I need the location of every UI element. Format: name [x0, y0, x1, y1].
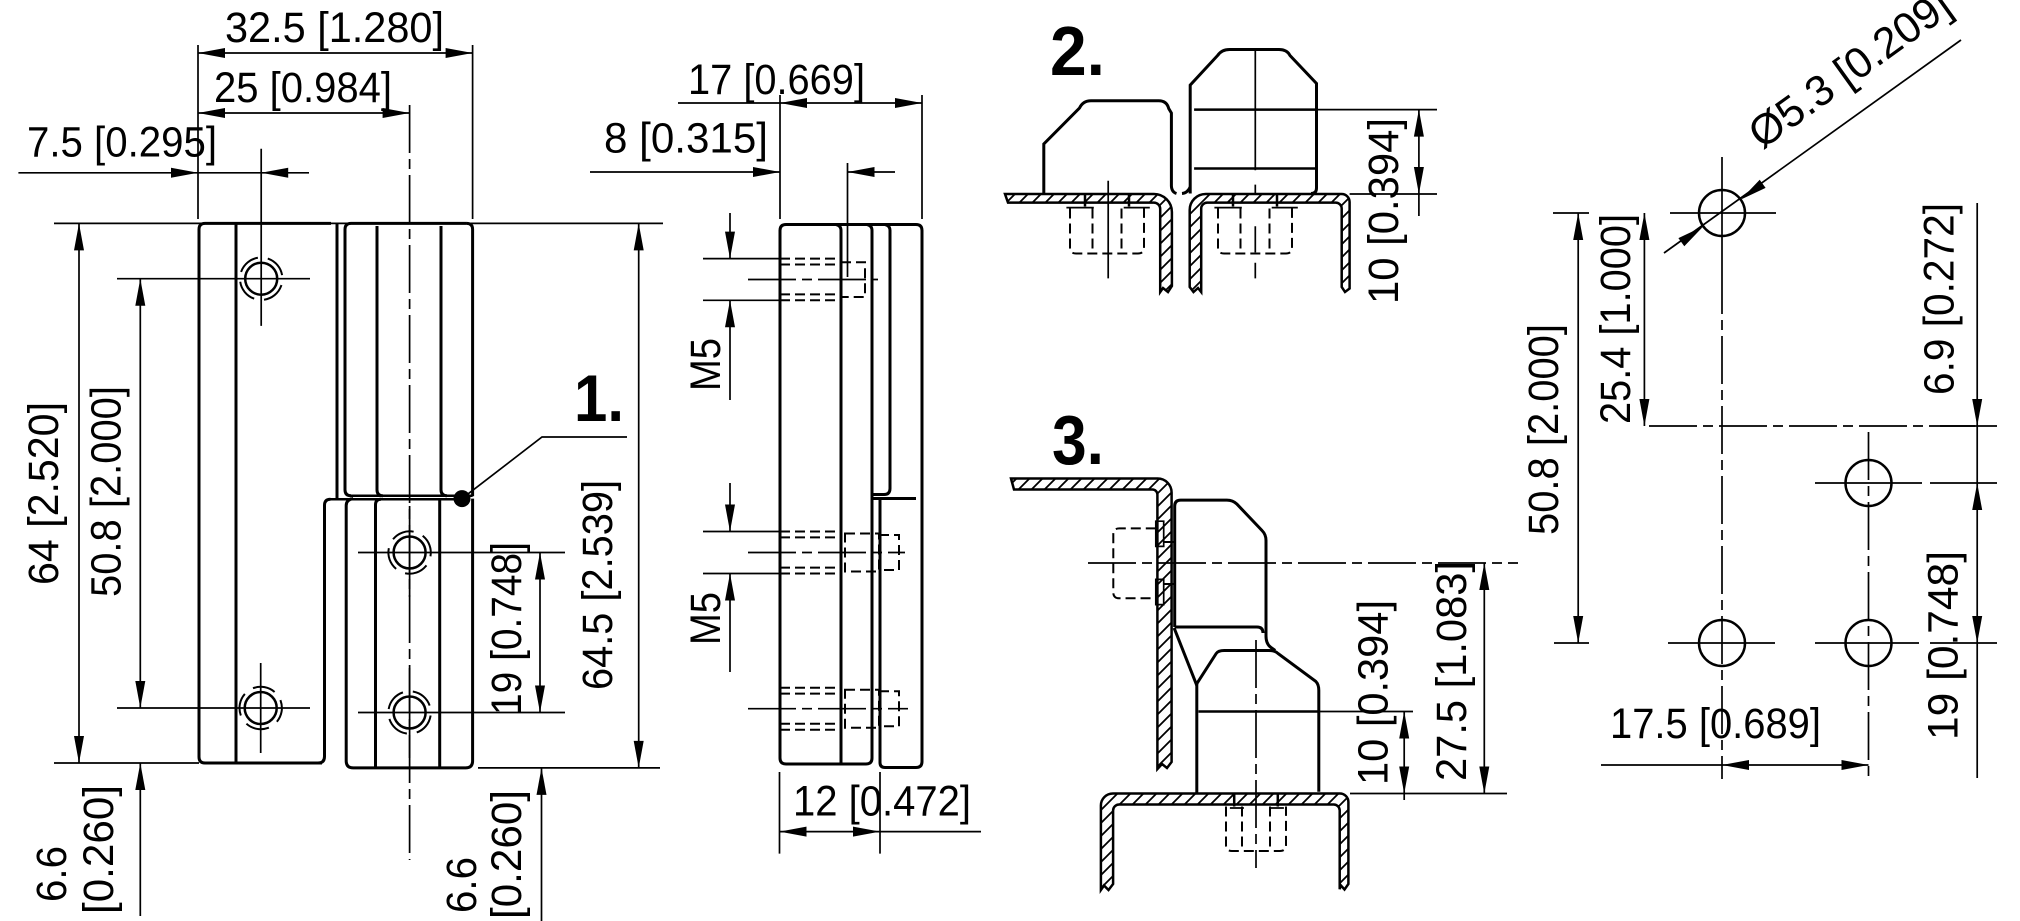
left leaf right edge upper	[336, 223, 339, 498]
lower plate inner vertical left	[376, 499, 382, 768]
stud below: dashed body	[1226, 807, 1286, 852]
stud1 M5 extension lines	[703, 259, 779, 301]
dim 10 line	[1403, 712, 1405, 801]
dim 25.4 line	[1643, 213, 1645, 426]
dim 6.6 left line	[139, 763, 141, 916]
lower plate inner vertical right	[438, 500, 441, 768]
side view left edge	[780, 225, 786, 765]
dim 6.9/19 shared line	[1976, 203, 1978, 778]
hole right-top: center cross	[358, 506, 565, 597]
stud right: ticks through panel	[1233, 194, 1277, 207]
hole bottom-right: cross line	[1815, 642, 1919, 644]
right panel sheet (hatched)	[1190, 194, 1350, 292]
dim 8 arrows (outside)	[753, 167, 875, 177]
dim 17.5 arrows	[1722, 760, 1869, 770]
stud3 head dashed rects	[845, 690, 899, 728]
right knuckle shoulder line (10 ref)	[1194, 108, 1316, 111]
dim 32.5 arrows	[198, 48, 473, 58]
stud below: dashed inner	[1242, 807, 1270, 849]
horizontal chain row line	[1649, 425, 1975, 427]
svg-text:17.5 [0.689]: 17.5 [0.689]	[1610, 700, 1821, 748]
svg-text:10 [0.394]: 10 [0.394]	[1360, 118, 1408, 304]
lower plate outline	[346, 499, 472, 768]
svg-text:32.5 [1.280]: 32.5 [1.280]	[225, 4, 444, 52]
right knuckle blade line	[1194, 167, 1315, 170]
lower knuckle outline	[1197, 651, 1319, 792]
dim 19 arrows	[535, 553, 545, 713]
lower knuckle shoulder line (10 ref)	[1199, 710, 1319, 713]
hole top: cross lines	[1670, 157, 1776, 266]
leader 1. line	[462, 437, 627, 499]
side view top edge	[786, 223, 916, 226]
stud left: ticks through panel	[1085, 194, 1129, 207]
dim 6.9 row ticks	[1930, 426, 1997, 483]
lower knuckle centerline chain	[1255, 640, 1257, 868]
hole mid-right: cross line	[1815, 482, 1922, 484]
dim 19 arrows	[1972, 483, 1982, 643]
stud horizontal: thread dashes in sheet	[1164, 542, 1175, 584]
dim 6.9 arrow top (outside)	[1972, 399, 1982, 426]
stud2 chain centerline	[748, 552, 905, 554]
dim 27.5 line	[1483, 563, 1485, 794]
dim M5 bottom line	[729, 483, 731, 672]
stud1 thread dashed lines	[780, 259, 841, 301]
svg-text:6.6: 6.6	[28, 846, 76, 902]
left leaf bottom edge	[205, 762, 322, 765]
vertical line right column	[1868, 432, 1870, 778]
dim 50.8 extension tick bottom	[1554, 642, 1589, 644]
dim 64.5 arrows	[634, 223, 644, 768]
left leaf inner line	[235, 223, 238, 763]
dim 25.4 extension tick top	[1553, 212, 1589, 214]
hole left-top: center cross	[117, 149, 310, 326]
stud right: dashed body	[1218, 209, 1292, 254]
stud right: dashed inner	[1241, 209, 1270, 251]
hole right-bottom: core circle	[394, 697, 426, 729]
dim 19 bottom tick	[1930, 642, 1997, 644]
vertical chain line left column	[1721, 266, 1723, 779]
dim 12 extension lines	[780, 772, 881, 854]
dim 17 extension lines	[780, 95, 922, 219]
svg-text:1.: 1.	[574, 361, 624, 435]
side view step lower edge	[873, 497, 916, 500]
left leaf right edge lower with step	[205, 499, 331, 763]
dim 7.5 arrows (outside)	[171, 168, 288, 178]
dim 10 arrows	[1414, 110, 1424, 194]
dim 10 line	[1418, 110, 1420, 216]
stud3 chain centerline	[748, 708, 908, 710]
dim 10 arrows	[1399, 712, 1409, 794]
dim 25.4 arrows	[1639, 213, 1649, 426]
hole bottom-right: circle	[1846, 620, 1892, 666]
leader diameter 5.3 arrows	[1678, 180, 1765, 246]
upper plate bottom edge	[350, 495, 473, 498]
svg-text:M5: M5	[682, 592, 730, 645]
svg-text:64.5 [2.539]: 64.5 [2.539]	[574, 480, 622, 690]
left leaf top edge	[205, 222, 331, 225]
svg-text:25.4 [1.000]: 25.4 [1.000]	[1592, 214, 1640, 424]
hole top: circle	[1699, 190, 1745, 236]
bottom panel sheet (hatched)	[1101, 794, 1349, 891]
dim 27.5 arrows	[1479, 563, 1489, 794]
leader 1. dot	[454, 490, 471, 507]
svg-text:17 [0.669]: 17 [0.669]	[688, 56, 865, 104]
svg-text:6.6: 6.6	[438, 857, 486, 913]
side view bottom-left edge	[786, 758, 872, 764]
svg-text:64 [2.520]: 64 [2.520]	[20, 402, 68, 585]
dim 32.5 line	[198, 52, 473, 54]
svg-text:3.: 3.	[1052, 401, 1104, 479]
stud horizontal: chain centerline	[1088, 562, 1518, 564]
L-bracket sheet (hatched)	[1011, 479, 1172, 770]
svg-text:19 [0.748]: 19 [0.748]	[1920, 551, 1968, 740]
dim 19 line	[539, 553, 541, 713]
dim 25 arrows	[198, 108, 410, 118]
stud left: collar bars	[1066, 207, 1149, 209]
stud1 chain centerline	[748, 279, 878, 281]
dim 17.5 line	[1601, 764, 1869, 766]
hole right-bottom: center cross	[358, 668, 565, 758]
dim 12 arrows	[780, 827, 881, 837]
upper knuckle bottom edge	[1175, 627, 1263, 633]
panel top extension line	[1350, 793, 1507, 795]
left knuckle outline	[1044, 101, 1177, 194]
stud2 M5 extension lines	[703, 532, 779, 574]
svg-text:8 [0.315]: 8 [0.315]	[604, 115, 768, 163]
right knuckle centerline	[1254, 50, 1256, 171]
stud3 thread dashed lines	[780, 688, 841, 730]
leader diameter 5.3 line	[1664, 40, 1961, 253]
side view vertical x=880 lower	[880, 499, 885, 768]
dim 6.6 right line	[541, 768, 543, 921]
stud2 head dashed rects	[845, 534, 899, 572]
stud2 thread dashed lines	[780, 532, 841, 574]
right knuckle gap flare	[1182, 187, 1190, 194]
bottom edge extension right	[478, 767, 660, 769]
svg-text:[0.260]: [0.260]	[75, 785, 123, 914]
dim 17 arrows	[780, 98, 922, 108]
vertical chain center line x=409.6	[409, 105, 411, 860]
dim M5 bottom arrows	[725, 505, 735, 601]
hole left-bottom: center cross	[117, 663, 310, 753]
side view vertical x=890 upper with step	[873, 225, 890, 495]
svg-text:10 [0.394]: 10 [0.394]	[1350, 600, 1398, 785]
side view right edge	[916, 225, 922, 762]
dim 17 line	[678, 102, 922, 104]
side view vertical x=872	[867, 225, 872, 759]
upper plate inner vertical right	[441, 226, 447, 496]
dim 25 line	[198, 112, 410, 114]
dim 6.6 left arrow	[135, 763, 145, 790]
dim 6.6 right arrow	[537, 768, 547, 795]
svg-text:25 [0.984]: 25 [0.984]	[214, 64, 392, 112]
hole right-bottom: thread dashed circle	[385, 688, 434, 737]
left leaf left edge	[199, 223, 205, 763]
svg-text:19 [0.748]: 19 [0.748]	[483, 542, 531, 715]
dim 32.5 extension lines	[198, 45, 473, 219]
svg-text:2.: 2.	[1050, 12, 1105, 90]
transition diagonal	[1174, 628, 1197, 686]
stud1 head dashed rect	[841, 262, 865, 297]
dim 50.8 arrows	[1573, 213, 1583, 643]
left knuckle centerline	[1107, 181, 1109, 279]
upper knuckle outline	[1175, 500, 1276, 650]
hole left-bottom: core circle	[245, 692, 277, 724]
dim 8 line	[590, 171, 895, 173]
hole left-top: core circle	[245, 263, 277, 295]
svg-text:12 [0.472]: 12 [0.472]	[793, 778, 971, 826]
svg-text:50.8 [2.000]: 50.8 [2.000]	[83, 386, 131, 597]
stud left: dashed body	[1070, 209, 1144, 254]
upper plate inner vertical left	[377, 226, 383, 496]
lower plate top edge	[331, 498, 464, 501]
dim 8 extension line	[847, 163, 849, 277]
left panel sheet (hatched)	[1005, 194, 1172, 292]
svg-text:50.8 [2.000]: 50.8 [2.000]	[1520, 324, 1568, 535]
bottom edge extension left	[54, 762, 199, 764]
hole left-bottom: thread dashed circle	[234, 681, 288, 735]
dim M5 top line	[729, 213, 731, 400]
svg-text:[0.260]: [0.260]	[483, 790, 531, 919]
hole right-top: core circle	[394, 537, 426, 569]
upper right plate outline	[345, 223, 473, 496]
hole left-top: thread dashed circle	[234, 252, 288, 306]
svg-text:6.9 [0.272]: 6.9 [0.272]	[1915, 203, 1963, 395]
dim 10 extension lines	[1317, 110, 1438, 194]
stud below: collar bars	[1230, 807, 1284, 809]
side view bottom-right edge	[885, 762, 922, 768]
right knuckle outline	[1190, 50, 1316, 194]
top edge extension line	[54, 222, 663, 224]
dim 64 arrows	[74, 223, 84, 763]
dim 50.8 line	[139, 279, 141, 708]
dim M5 top arrows	[725, 232, 735, 328]
hole bottom-left: cross line	[1668, 642, 1775, 644]
stud horizontal: collar flanges	[1156, 521, 1164, 604]
stud horizontal: dashed head rect	[1113, 528, 1156, 598]
dim 50.8 arrows	[135, 279, 145, 708]
dim 64.5 line	[638, 223, 640, 768]
dim 50.8 line	[1577, 213, 1579, 643]
stud below: ticks through panel	[1234, 794, 1278, 807]
dim 7.5 line	[18, 172, 309, 174]
stud right: collar bars	[1214, 207, 1297, 209]
svg-text:7.5 [0.295]: 7.5 [0.295]	[27, 119, 217, 167]
lower knuckle left edge	[1195, 684, 1198, 794]
dim 10 extension line	[1319, 711, 1413, 713]
side view vertical x=841	[836, 225, 841, 765]
stud left: dashed inner	[1093, 209, 1122, 251]
hole mid-right: circle	[1846, 460, 1892, 506]
svg-text:M5: M5	[682, 338, 730, 391]
hole bottom-left: circle	[1699, 620, 1745, 666]
hole right-top: thread dashed circle	[380, 523, 440, 583]
dim 64 line	[78, 223, 80, 763]
right knuckle centerline dashes below	[1254, 185, 1256, 279]
svg-text:27.5 [1.083]: 27.5 [1.083]	[1428, 561, 1476, 781]
dim 12 line	[780, 831, 982, 833]
upper right plate top edge	[351, 222, 467, 225]
